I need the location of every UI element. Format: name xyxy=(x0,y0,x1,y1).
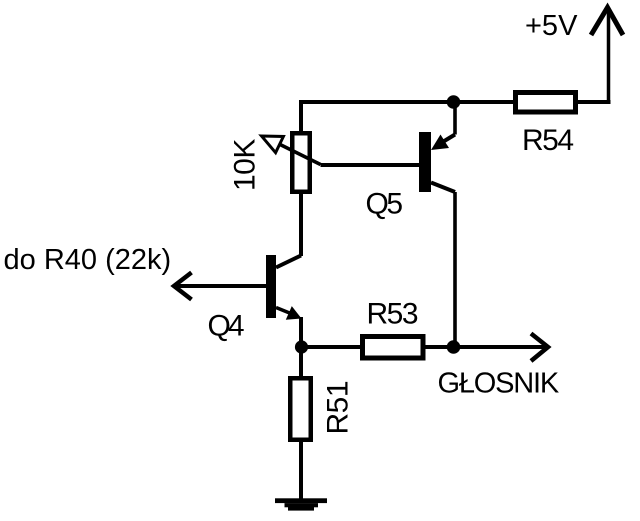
arrow to R40 xyxy=(174,273,192,300)
transistor Q4 xyxy=(266,255,302,320)
wire Q5 base xyxy=(321,163,420,167)
wire node down to R51 xyxy=(299,347,303,377)
svg-text:+5V: +5V xyxy=(525,10,578,42)
svg-text:R51: R51 xyxy=(322,381,355,435)
junction node top (R54 / Q5 emitter) xyxy=(447,95,461,109)
wire output to arrow xyxy=(454,345,546,349)
transistor Q5 xyxy=(419,132,455,192)
svg-text:Q4: Q4 xyxy=(208,310,244,343)
svg-text:GŁOSNIK: GŁOSNIK xyxy=(438,368,560,400)
wire R51 to ground xyxy=(299,439,303,499)
potentiometer wiper arrow xyxy=(262,136,321,165)
svg-text:Q5: Q5 xyxy=(366,188,403,221)
wire pot top xyxy=(299,100,303,133)
wire Q4 base xyxy=(177,284,266,288)
resistor R51 xyxy=(290,378,311,440)
wire Q4 emitter down to node xyxy=(299,317,303,347)
resistor R53 xyxy=(363,337,424,359)
svg-text:do R40 (22k): do R40 (22k) xyxy=(4,244,172,276)
svg-text:R53: R53 xyxy=(367,298,418,331)
wire node to R53 left xyxy=(301,345,361,349)
wire top rail (pot top to R54 left) xyxy=(301,100,513,104)
potentiometer 10K body xyxy=(292,133,310,192)
svg-text:10K: 10K xyxy=(229,139,262,191)
svg-text:R54: R54 xyxy=(522,124,573,157)
wire pot bottom to Q4 collector xyxy=(299,191,303,256)
resistor R54 xyxy=(516,93,576,113)
arrow GŁOSNIK xyxy=(531,334,548,362)
junction node emitter/R51/R53 xyxy=(295,340,308,353)
wire Q5 collector down to output node xyxy=(453,192,457,347)
junction node output (Q5 collector / GŁOSNIK) xyxy=(447,340,461,354)
wire corner to R54 right xyxy=(578,100,611,104)
wire +5V supply down to corner xyxy=(607,12,611,102)
ground xyxy=(275,498,327,510)
wire Q5 emitter vertical xyxy=(453,102,457,135)
power arrow +5V xyxy=(591,8,623,36)
wire R53 right to output node xyxy=(426,345,454,349)
